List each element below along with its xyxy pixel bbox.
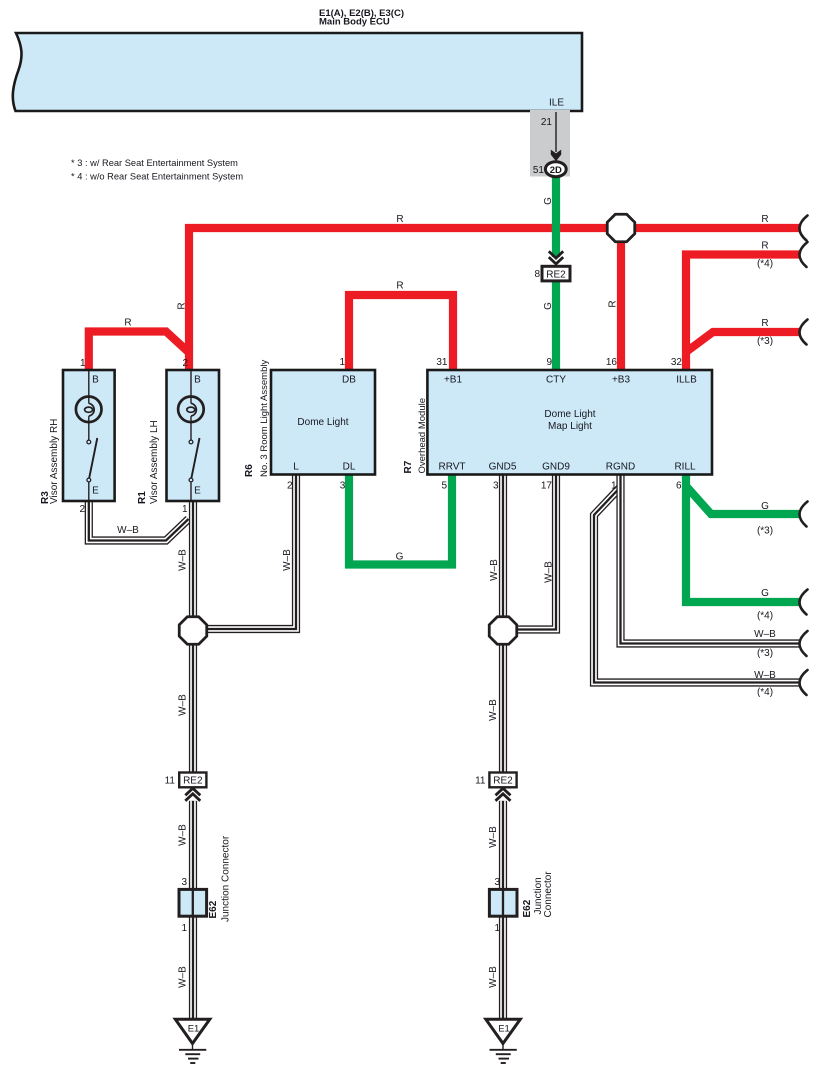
svg-text:(*4): (*4) (757, 611, 773, 622)
svg-text:W–B: W–B (544, 561, 555, 583)
svg-text:1: 1 (80, 358, 86, 369)
connector E62 left junction connector box (179, 889, 207, 916)
svg-text:2: 2 (287, 481, 293, 492)
connector RE2 top box (542, 266, 570, 281)
svg-text:R: R (608, 300, 619, 307)
wire green 2D to CTY upper (552, 170, 560, 257)
svg-text:Overhead Module: Overhead Module (417, 398, 428, 474)
svg-text:R1: R1 (137, 491, 148, 504)
svg-text:Main Body ECU: Main Body ECU (319, 17, 390, 28)
svg-text:R: R (761, 214, 768, 225)
out-of-page curl G (*4) (799, 590, 807, 615)
svg-text:3: 3 (340, 481, 346, 492)
wire W-B RGND to W-B (*3) right edge (621, 473, 800, 644)
wire W-B GND5 chain down (499, 473, 507, 773)
wire red vertical from octagon junction to +B3 (617, 228, 625, 372)
svg-text:+B3: +B3 (612, 375, 631, 386)
out-of-page curl R main (799, 216, 807, 241)
switch symbol R3 (88, 416, 90, 440)
ECU E1 E2 E3 Main Body ECU box (13, 33, 582, 111)
svg-text:GND9: GND9 (542, 462, 570, 473)
out-of-page curl W-B (*4) (799, 670, 807, 695)
wire W-B RGND branch to W-B (*4) right edge (594, 487, 799, 683)
svg-text:3: 3 (494, 877, 500, 888)
arrow chevrons into RE2 (549, 251, 563, 264)
svg-text:DB: DB (342, 375, 356, 386)
wire W-B dome light L pin to left octagon (204, 473, 296, 629)
component R1 Visor Assembly LH box (167, 370, 220, 501)
svg-text:ILE: ILE (549, 98, 564, 109)
svg-text:16: 16 (606, 357, 618, 368)
svg-text:RRVT: RRVT (438, 462, 465, 473)
connector E62 right junction connector box (489, 889, 517, 916)
svg-text:1: 1 (494, 923, 500, 934)
arrow chevrons up left chain (185, 788, 200, 801)
svg-text:Connector: Connector (543, 871, 554, 918)
svg-text:Map Light: Map Light (548, 421, 592, 432)
svg-text:W–B: W–B (488, 966, 499, 988)
svg-text:21: 21 (541, 117, 553, 128)
wire green below RE2 to CTY (552, 281, 560, 372)
svg-text:2: 2 (182, 358, 188, 369)
out-of-page curl R (*4) (799, 242, 807, 267)
svg-text:(*4): (*4) (757, 687, 773, 698)
junction octagon right W-B (489, 617, 517, 645)
svg-text:17: 17 (541, 481, 553, 492)
svg-text:1: 1 (182, 504, 188, 515)
ground hatching right (502, 1042, 504, 1050)
component R7 Overhead Module box (427, 370, 712, 475)
out-of-page curl R (*3) (799, 320, 807, 345)
out-of-page curl W-B (*3) (799, 631, 807, 656)
svg-text:W–B: W–B (282, 549, 293, 571)
svg-text:W–B: W–B (754, 629, 776, 640)
arrow chevrons up right chain (496, 788, 511, 801)
ground E1 triangle left (175, 1019, 210, 1043)
svg-text:Junction Connector: Junction Connector (221, 835, 232, 922)
wire W-B from R3 pin 2 joining R1 wire (89, 499, 189, 541)
svg-text:(*4): (*4) (757, 259, 773, 270)
svg-text:E62: E62 (208, 900, 219, 918)
svg-text:GND5: GND5 (489, 462, 517, 473)
junction octagon on red main wire (607, 214, 635, 242)
svg-text:W–B: W–B (178, 549, 189, 571)
svg-text:3: 3 (181, 877, 187, 888)
wire W-B left chain RE2 to E62 (189, 801, 197, 890)
wire W-B GND9 to right octagon (517, 473, 556, 630)
wire red main horizontal R from R1 to right edge (189, 228, 799, 372)
svg-text:W–B: W–B (488, 826, 499, 848)
svg-text:31: 31 (436, 357, 448, 368)
wire green DL to RRVT (349, 473, 452, 565)
svg-text:RE2: RE2 (546, 270, 566, 281)
svg-text:Dome Light: Dome Light (297, 417, 348, 428)
svg-text:2D: 2D (550, 165, 562, 176)
svg-text:* 3 : w/ Rear Seat Entertainme: * 3 : w/ Rear Seat Entertainment System (71, 158, 238, 168)
svg-text:W–B: W–B (488, 699, 499, 721)
svg-text:W–B: W–B (178, 694, 189, 716)
svg-text:RE2: RE2 (183, 776, 203, 787)
svg-text:8: 8 (534, 269, 540, 280)
connector 2D oval (545, 162, 566, 177)
svg-text:RGND: RGND (606, 462, 635, 473)
svg-text:5: 5 (441, 481, 447, 492)
svg-text:RILL: RILL (674, 462, 696, 473)
out-of-page curl G (*3) (799, 502, 807, 527)
svg-text:RE2: RE2 (493, 776, 513, 787)
component R6 No. 3 Room Light Assembly box (271, 370, 375, 475)
svg-text:CTY: CTY (546, 375, 566, 386)
arrow from ILE pin 21 down to 2D (555, 112, 557, 152)
ground E1 triangle right (486, 1019, 521, 1043)
ground hatching left (192, 1042, 194, 1050)
wire W-B left main from R1 pin 1 to octagon to RE2 (189, 499, 197, 773)
svg-text:G: G (761, 501, 769, 512)
svg-text:R6: R6 (244, 464, 255, 477)
svg-text:W–B: W–B (489, 559, 500, 581)
svg-text:R: R (396, 281, 403, 292)
component R3 Visor Assembly RH box (63, 370, 115, 501)
svg-text:R: R (396, 214, 403, 225)
wire W-B right chain RE2 to E62 (499, 801, 507, 890)
wire green RILL down to G (*4) right edge (686, 473, 799, 602)
svg-text:1: 1 (611, 481, 617, 492)
svg-text:E1: E1 (498, 1024, 510, 1035)
svg-text:G: G (761, 588, 769, 599)
svg-text:E: E (92, 486, 99, 497)
svg-text:E62: E62 (522, 899, 533, 917)
svg-text:R: R (124, 318, 131, 329)
svg-text:Dome Light: Dome Light (544, 409, 595, 420)
wire red ILLB up to R (*4) right edge (686, 255, 799, 373)
svg-text:G: G (543, 197, 554, 205)
wire W-B right chain E62 to ground E1 (499, 916, 507, 1020)
svg-text:32: 32 (671, 357, 683, 368)
svg-text:3: 3 (493, 481, 499, 492)
svg-text:(*3): (*3) (757, 648, 773, 659)
svg-text:11: 11 (475, 776, 486, 787)
svg-text:ILLB: ILLB (676, 375, 697, 386)
bulb symbol R3 (88, 371, 90, 404)
svg-text:B: B (194, 375, 201, 386)
svg-text:G: G (543, 302, 554, 310)
svg-text:R7: R7 (403, 460, 414, 473)
svg-text:Visor Assembly RH: Visor Assembly RH (49, 419, 60, 504)
svg-text:2: 2 (79, 504, 85, 515)
svg-text:9: 9 (546, 357, 552, 368)
svg-text:W–B: W–B (178, 966, 189, 988)
svg-text:G: G (396, 552, 404, 563)
svg-text:6: 6 (676, 481, 682, 492)
svg-text:B: B (92, 375, 99, 386)
connector RE2 left chain box (179, 773, 206, 788)
svg-text:E: E (194, 486, 201, 497)
svg-text:DL: DL (343, 462, 356, 473)
shield gray band pin 21 to connector 2D (530, 110, 570, 177)
svg-text:No. 3 Room Light Assembly: No. 3 Room Light Assembly (259, 360, 270, 477)
svg-text:1: 1 (181, 923, 187, 934)
bulb symbol R1 (190, 371, 192, 404)
svg-text:Visor Assembly LH: Visor Assembly LH (149, 420, 160, 504)
wire W-B left chain E62 to ground E1 (189, 916, 197, 1020)
svg-text:51: 51 (533, 165, 545, 176)
wire red DB to +B1 (349, 295, 453, 372)
svg-text:11: 11 (165, 776, 176, 787)
wire red R visor branch R3 to R1 (89, 332, 191, 373)
svg-text:E1: E1 (188, 1024, 200, 1035)
svg-text:W–B: W–B (117, 525, 139, 536)
junction octagon left W-B (179, 617, 207, 645)
wire green branch G (*3) to right edge (686, 486, 799, 514)
svg-text:R: R (761, 318, 768, 329)
svg-text:R: R (177, 302, 188, 309)
svg-text:W–B: W–B (754, 670, 776, 681)
svg-text:1: 1 (339, 357, 345, 368)
switch symbol R1 (190, 416, 192, 440)
svg-text:R: R (761, 241, 768, 252)
wire red branch R (*3) to right edge (686, 332, 799, 352)
svg-text:+B1: +B1 (444, 375, 463, 386)
svg-text:* 4 : w/o Rear Seat Entertainm: * 4 : w/o Rear Seat Entertainment System (71, 172, 243, 182)
svg-text:(*3): (*3) (757, 336, 773, 347)
svg-text:L: L (293, 462, 299, 473)
svg-text:W–B: W–B (178, 824, 189, 846)
svg-text:(*3): (*3) (757, 526, 773, 537)
connector RE2 right chain box (489, 773, 516, 788)
